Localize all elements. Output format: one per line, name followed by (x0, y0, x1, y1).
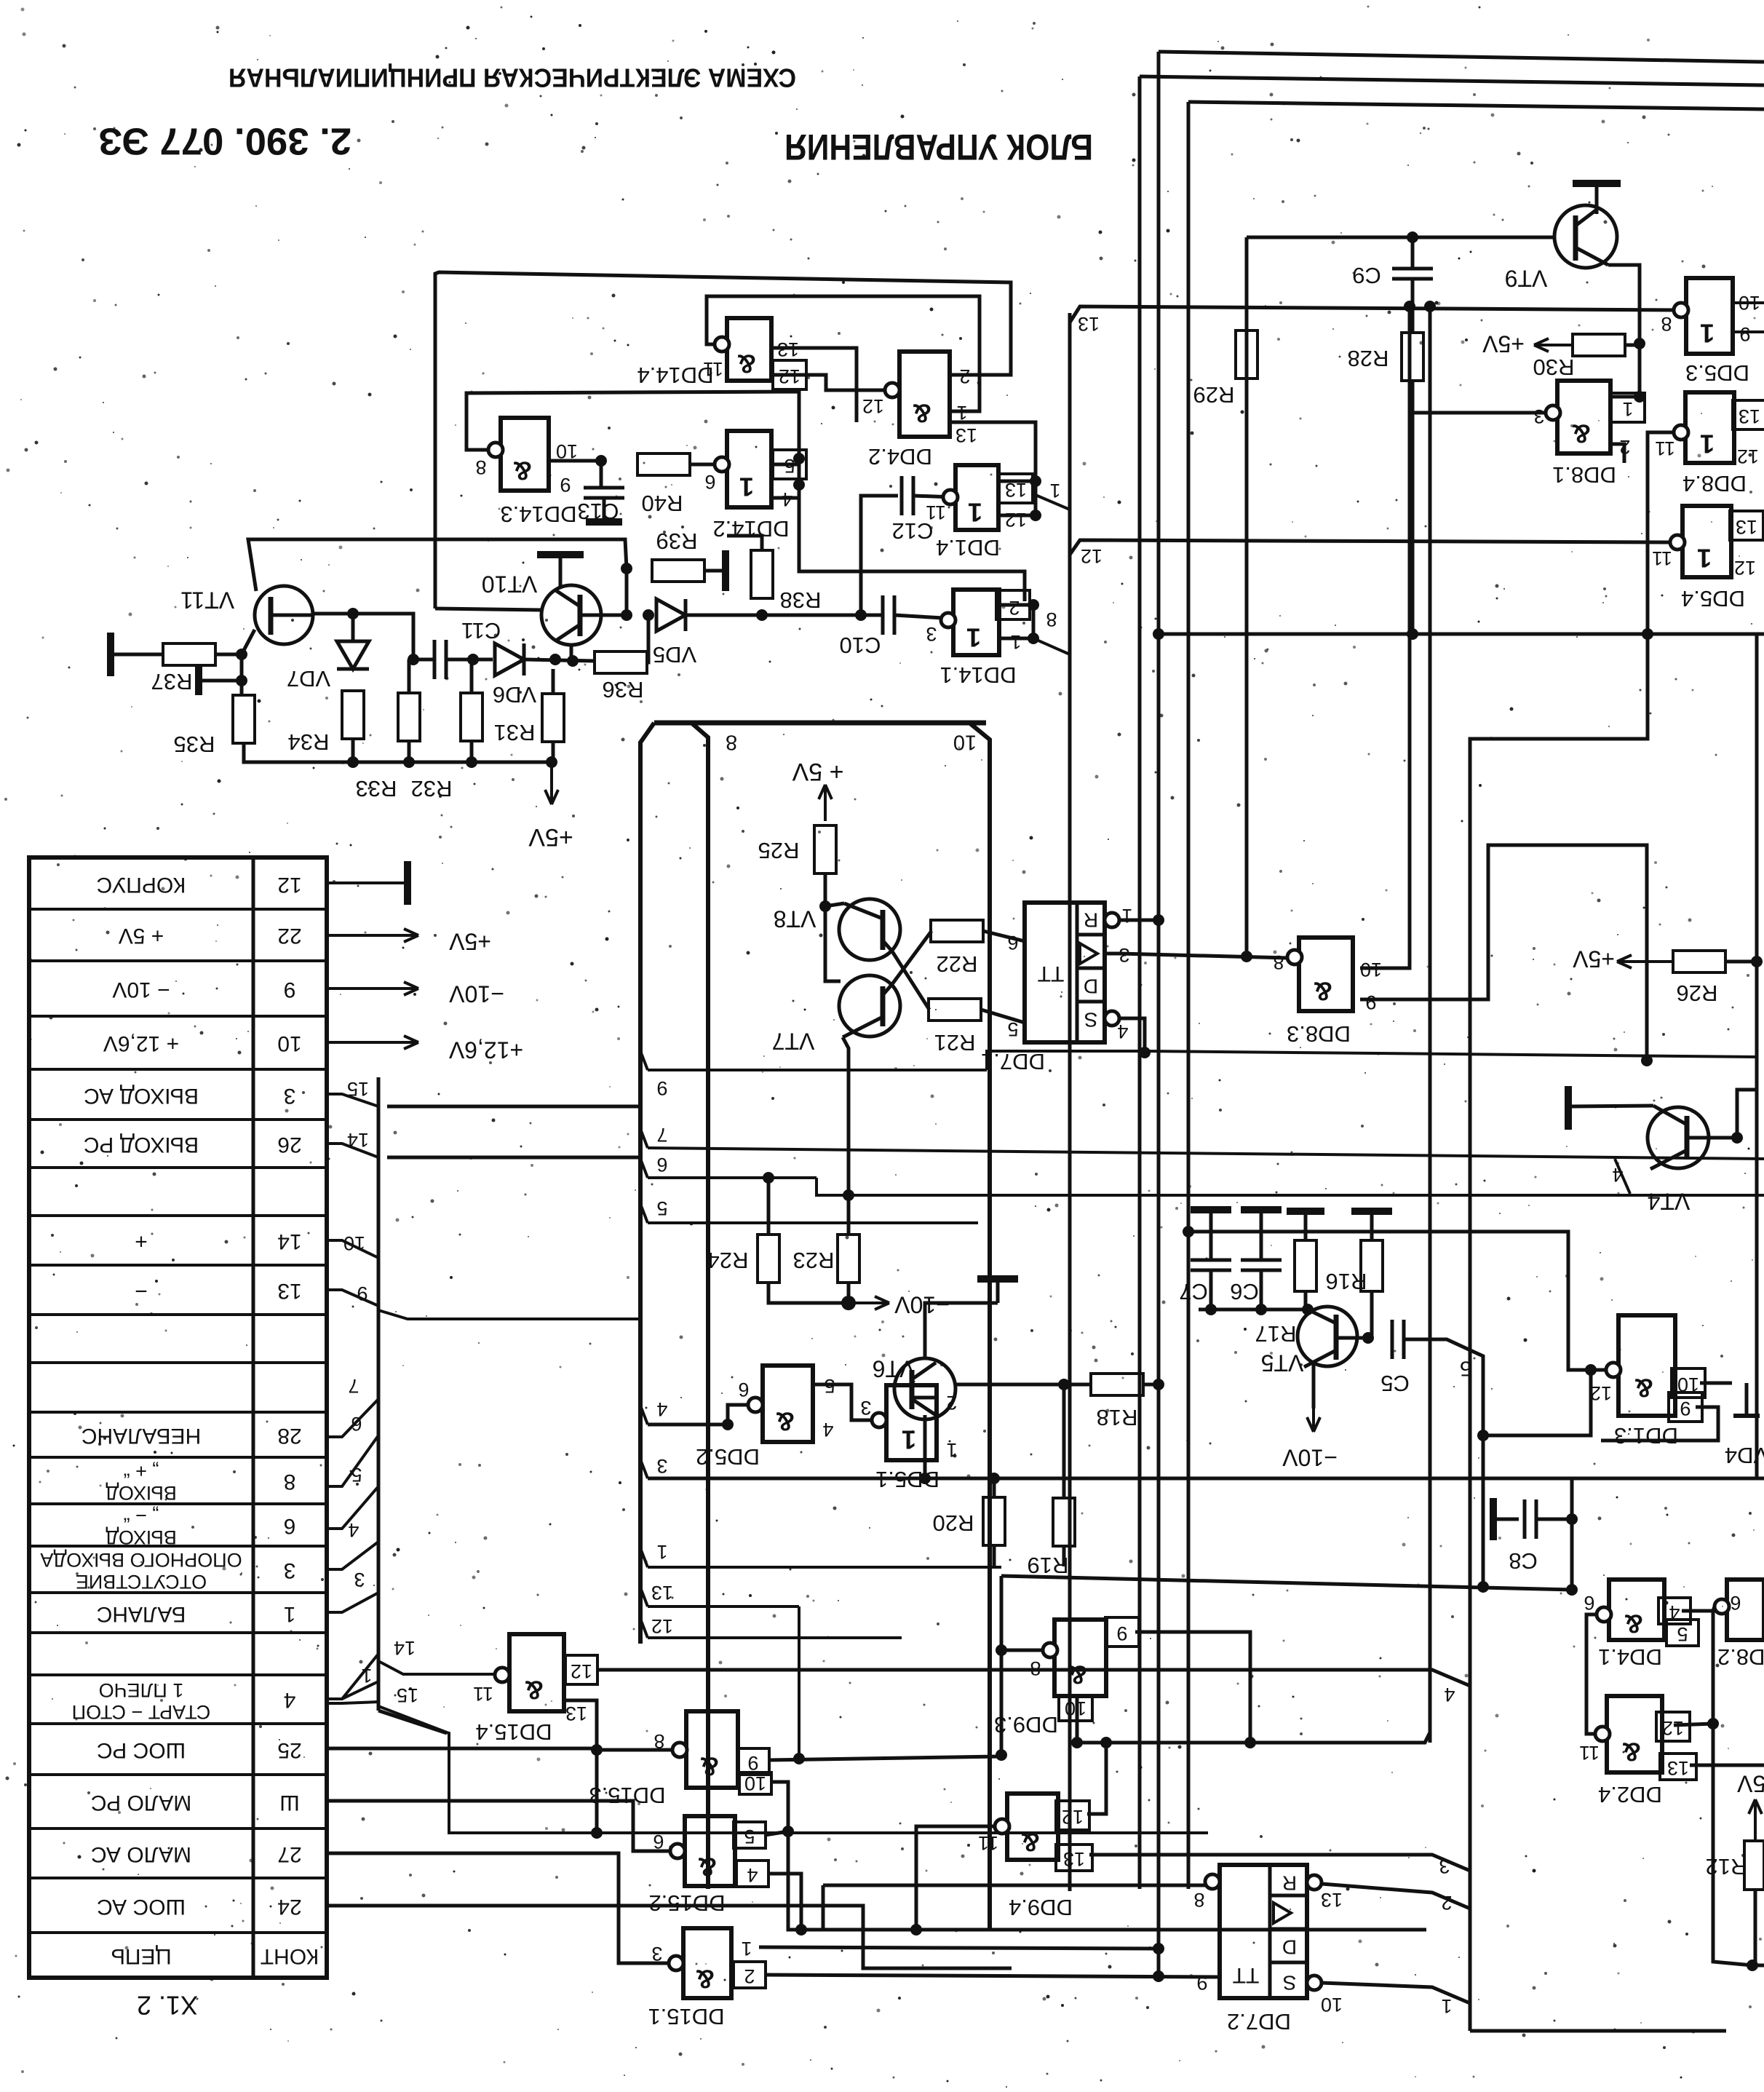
svg-text:ЦЕПЬ: ЦЕПЬ (111, 1944, 171, 1968)
wire cross couple 2 (892, 931, 931, 984)
ground C6 (1241, 1206, 1282, 1213)
svg-text:R: R (1282, 1872, 1297, 1895)
svg-text:C11: C11 (461, 618, 501, 643)
svg-text:R29: R29 (1193, 382, 1235, 408)
svg-text:C9: C9 (1352, 263, 1381, 288)
svg-text:+ 12,6V: + 12,6V (103, 1031, 179, 1055)
svg-text:2: 2 (1441, 1892, 1452, 1914)
svg-text:DD8.1: DD8.1 (1552, 462, 1616, 488)
svg-text:1: 1 (739, 472, 754, 502)
svg-text:3: 3 (926, 623, 937, 645)
svg-text:СХЕМА ЭЛЕКТРИЧЕСКАЯ ПРИНЦИПИА: СХЕМА ЭЛЕКТРИЧЕСКАЯ ПРИНЦИПИАЛЬНАЯ (229, 63, 796, 92)
node junction (595, 455, 607, 467)
svg-text:R30: R30 (1533, 354, 1575, 380)
wire (647, 615, 648, 662)
svg-text:10: 10 (1360, 959, 1382, 980)
svg-text:14: 14 (347, 1129, 369, 1151)
node junction (1302, 1304, 1314, 1315)
resistor R22 (931, 920, 983, 977)
transistor VT10 (482, 571, 601, 645)
wire (1143, 1383, 1159, 1387)
wire VT9 base net (1247, 236, 1555, 239)
svg-text:5: 5 (1460, 1356, 1471, 1379)
wire (981, 1010, 1025, 1023)
wire (413, 658, 434, 662)
svg-text:&: & (1622, 1737, 1641, 1767)
node 14 (327, 1129, 378, 1157)
wire R20 top (993, 1478, 996, 1497)
ground bar C8 (1490, 1498, 1497, 1540)
transistor VT4 (1648, 1106, 1709, 1215)
svg-text:4: 4 (1612, 1164, 1623, 1186)
svg-text:6: 6 (1584, 1592, 1594, 1614)
wire long feedback via VT10 (435, 609, 541, 610)
power +5V arrow contact 22 (327, 929, 491, 955)
svg-text:„ − “: „ − “ (124, 1505, 159, 1526)
wire VT5 emitter arrow -10V (1282, 1364, 1338, 1471)
svg-text:8: 8 (475, 456, 486, 478)
node junction (1205, 1304, 1217, 1315)
svg-text:DD15.1: DD15.1 (648, 2004, 724, 2029)
svg-text:C10: C10 (840, 633, 881, 658)
svg-text:+5V: +5V (1482, 331, 1524, 357)
svg-text:&: & (698, 1852, 717, 1882)
node junction (1139, 1047, 1151, 1058)
svg-text:VD4: VD4 (1725, 1443, 1764, 1468)
ground bar VT4 (1565, 1086, 1572, 1130)
gate DD15.2 (648, 1816, 758, 1916)
diode VD6 (493, 643, 536, 708)
svg-text:4: 4 (747, 1864, 758, 1886)
node junction (793, 1753, 805, 1764)
svg-text:1: 1 (1697, 543, 1712, 573)
svg-text:VT5: VT5 (1261, 1350, 1304, 1376)
svg-text:1: 1 (968, 497, 982, 527)
svg-text:+5V: +5V (448, 929, 490, 955)
svg-text:1: 1 (284, 1602, 296, 1626)
power −10V arrow (849, 1292, 950, 1318)
svg-text:DD14.3: DD14.3 (500, 502, 576, 527)
power +5V arrow R30 (1534, 338, 1573, 352)
svg-text:СТАРТ − СТОП: СТАРТ − СТОП (72, 1701, 211, 1723)
capacitor C10 (840, 595, 894, 658)
svg-text:DD5.3: DD5.3 (1685, 360, 1749, 386)
svg-text:+5V: +5V (1572, 946, 1614, 972)
svg-text:13: 13 (565, 1703, 587, 1724)
node junction (1407, 231, 1418, 243)
svg-text:R36: R36 (603, 677, 644, 702)
wire (549, 459, 601, 463)
svg-text:DD5.2: DD5.2 (696, 1444, 760, 1470)
wire DD9.3 pin10 drop (1076, 1696, 1079, 1743)
wire (771, 496, 799, 500)
wire R19 bottom (1062, 1546, 1066, 1566)
resistor R20 (933, 1497, 1005, 1545)
svg-text:9: 9 (1739, 323, 1750, 345)
node 12 (640, 1615, 902, 1638)
resistor R23 (793, 1235, 859, 1283)
resistor R35 (174, 695, 255, 757)
wire R20 bottom (993, 1545, 996, 1566)
svg-text:DD2.4: DD2.4 (1598, 1782, 1662, 1807)
wire DD14.4 pin13 (771, 348, 857, 408)
svg-text:12: 12 (1590, 1382, 1612, 1404)
svg-text:− 10V: − 10V (112, 978, 170, 1002)
node junction (996, 1644, 1007, 1656)
wire DD1.3 pin10 (1700, 1382, 1732, 1385)
flip-flop DD7.2 (1193, 1865, 1343, 2034)
svg-text:VT10: VT10 (482, 571, 537, 598)
svg-text:R40: R40 (642, 491, 683, 516)
node junction (1404, 301, 1415, 312)
svg-text:1: 1 (946, 1439, 957, 1461)
svg-text:TT: TT (1233, 1963, 1260, 1987)
svg-text:1: 1 (1049, 480, 1060, 502)
svg-text:6: 6 (284, 1514, 296, 1538)
wire (470, 741, 474, 762)
wire horizontal mid bus (1159, 633, 1764, 636)
wire (955, 1383, 1091, 1387)
svg-text:4: 4 (656, 1398, 667, 1420)
node junction (1153, 914, 1164, 926)
resistor R34 (288, 691, 364, 755)
svg-text:МАЛО РС: МАЛО РС (91, 1791, 191, 1815)
svg-text:R25: R25 (758, 838, 800, 863)
svg-text:R35: R35 (174, 732, 215, 757)
svg-text:ВЫХОД АС: ВЫХОД АС (84, 1084, 199, 1108)
transistor VT8 (774, 899, 900, 960)
pin frames (734, 303, 1764, 1988)
gate DD4.2 (862, 352, 977, 469)
wire DD8.1 pin2 loop (1610, 444, 1624, 463)
wire DD8.3 pin10 drop (1360, 306, 1410, 968)
ground above VT9 (1573, 183, 1621, 214)
svg-text:1: 1 (956, 402, 967, 424)
node junction (347, 756, 359, 768)
wire DD8.4 pin11 (1648, 432, 1674, 437)
wire VT9 emitter (1608, 265, 1640, 397)
svg-text:S: S (1084, 1009, 1098, 1031)
wire VT10 emitter (570, 645, 573, 661)
svg-text:2. 390. 077 ЭЗ: 2. 390. 077 ЭЗ (98, 119, 351, 162)
node junction (1585, 1364, 1597, 1376)
node 10 (953, 730, 977, 753)
flip-flop DD7.1 (981, 903, 1132, 1074)
svg-text:&: & (1634, 1373, 1653, 1403)
node 15 (327, 1078, 378, 1106)
svg-text:&: & (696, 1964, 715, 1994)
svg-text:9: 9 (1196, 1972, 1207, 1994)
resistor R39 (652, 528, 704, 582)
svg-text:6: 6 (738, 1379, 749, 1400)
wire DD14.4 pin12 to DD4.2 out (771, 375, 885, 390)
svg-text:1: 1 (1010, 631, 1021, 653)
wire H16 (654, 721, 986, 726)
svg-text:8: 8 (726, 730, 737, 753)
node junction (793, 479, 805, 491)
svg-text:10: 10 (277, 1031, 301, 1055)
node junction (988, 1473, 1000, 1484)
node junction (1641, 1055, 1653, 1066)
wire DD15.3 pin10 (770, 1782, 788, 1831)
node junction (1183, 1226, 1194, 1237)
svg-text:DD9.4: DD9.4 (1009, 1895, 1073, 1920)
node junction (1731, 1132, 1743, 1144)
node junction (621, 563, 632, 574)
svg-text:2: 2 (946, 1392, 957, 1414)
wire (771, 463, 799, 467)
cable line D left (691, 723, 708, 1889)
svg-text:6: 6 (351, 1413, 362, 1435)
svg-text:−10V: −10V (894, 1292, 950, 1318)
wire VT4 base (1568, 1106, 1653, 1106)
svg-text:VT8: VT8 (774, 906, 817, 932)
svg-text:&: & (1021, 1827, 1040, 1857)
node junction (1153, 1379, 1164, 1390)
svg-text:&: & (1572, 419, 1591, 448)
svg-text:24: 24 (277, 1895, 301, 1919)
wire y2394 (1077, 1732, 1430, 1743)
wire DD15.2 pin5 net down (788, 1831, 1426, 1930)
node junction (841, 1296, 856, 1310)
wire (824, 873, 827, 906)
gate DD15.3 (589, 1711, 766, 1808)
svg-text:6: 6 (704, 471, 715, 493)
node 3 (327, 1569, 378, 1612)
node junction (1244, 1737, 1256, 1748)
wire VT5 collector link (1336, 1336, 1368, 1340)
node junction (1642, 628, 1653, 640)
svg-text:−: − (135, 1279, 148, 1303)
svg-text:&: & (525, 1675, 544, 1705)
wire (552, 669, 555, 694)
wire long y2030 (648, 1477, 1764, 1481)
gate DD9.3 (994, 1620, 1127, 1738)
svg-text:DD15.3: DD15.3 (589, 1783, 665, 1808)
resistor R36 (595, 651, 647, 702)
resistor R21 (929, 999, 981, 1055)
svg-text:+ 5V: + 5V (119, 924, 164, 948)
node junction (1058, 1379, 1070, 1390)
svg-text:11: 11 (978, 1832, 998, 1854)
svg-text:DD1.3: DD1.3 (1614, 1423, 1678, 1449)
node junction (1566, 1584, 1578, 1596)
wire (408, 659, 411, 693)
svg-text:+5V: +5V (1736, 1771, 1764, 1797)
svg-text:12: 12 (1737, 445, 1759, 467)
wire DD15.1 pin1 long (759, 1947, 1159, 1949)
svg-text:1 ПЛЕЧО: 1 ПЛЕЧО (99, 1679, 184, 1701)
resistor R18 (1091, 1374, 1143, 1430)
svg-text:R18: R18 (1097, 1405, 1138, 1430)
wire VT4 collector loop (1737, 1090, 1757, 1138)
svg-text:5: 5 (351, 1464, 362, 1486)
svg-text:DD4.2: DD4.2 (868, 444, 932, 469)
svg-text:ШОС РС: ШОС РС (97, 1738, 186, 1762)
svg-text:27: 27 (277, 1842, 301, 1866)
svg-text:7: 7 (348, 1375, 359, 1397)
svg-text:13: 13 (277, 1279, 301, 1303)
node junction (843, 1189, 854, 1201)
wire table to bundleB link 1 (387, 1105, 640, 1109)
node junction (996, 1749, 1007, 1761)
power +5V arrow R12 (1736, 1771, 1764, 1841)
wire DD14.1 pin2 (999, 603, 1033, 607)
svg-text:БАЛАНС: БАЛАНС (97, 1602, 186, 1626)
svg-text:8: 8 (1273, 951, 1284, 973)
transistor VT11 (180, 586, 313, 654)
wire to DD9.4 pin12 (1087, 1743, 1106, 1814)
wire cable line E (1429, 306, 1432, 1743)
wire (822, 1885, 825, 1930)
node junction (1477, 1581, 1489, 1593)
wire DD15.2 pin5 (765, 1831, 788, 1835)
node 4 (640, 1398, 728, 1425)
node junction (910, 1924, 922, 1936)
wire DD7.2 pin10 to cable (1322, 1983, 1470, 2017)
node junction (1153, 628, 1164, 640)
capacitor C11 (434, 618, 501, 679)
wire DD15.3 pin9 long (768, 1756, 1000, 1760)
svg-text:1: 1 (361, 1665, 372, 1687)
svg-text:4: 4 (822, 1419, 833, 1441)
wire VT8-VT7 link (825, 906, 841, 981)
wire top bus 1 (1159, 52, 1764, 62)
svg-text:10: 10 (1321, 1994, 1343, 2016)
svg-text:9: 9 (656, 1077, 667, 1099)
svg-text:15: 15 (397, 1684, 418, 1706)
gate DD5.2 (696, 1366, 835, 1470)
svg-text:3: 3 (1533, 405, 1544, 427)
wire MALO RS net (327, 1801, 670, 1851)
svg-text:13: 13 (1321, 1889, 1343, 1911)
wire top bus 2 (1140, 76, 1764, 85)
wire (625, 568, 629, 615)
wire DD8.3 out (1119, 954, 1287, 958)
wire DD4.2 pin13 to DD1.4 (950, 422, 1036, 481)
gate DD5.4 (1652, 506, 1757, 611)
svg-text:13: 13 (955, 424, 977, 446)
svg-text:14: 14 (394, 1637, 416, 1659)
title line 2 (98, 119, 1093, 167)
resistor R37 (151, 643, 215, 694)
svg-text:9: 9 (1365, 991, 1376, 1013)
wire (215, 653, 242, 657)
wire chamfer5 line (1404, 1339, 1483, 1588)
svg-text:15: 15 (347, 1078, 369, 1100)
wire x2354 vertical (1713, 1611, 1752, 1965)
svg-text:DD5.4: DD5.4 (1681, 586, 1745, 611)
svg-text:+ 5V: + 5V (792, 758, 843, 785)
wire (998, 480, 1036, 483)
node junction (236, 649, 247, 660)
svg-text:11: 11 (1579, 1742, 1600, 1764)
svg-text:12: 12 (1734, 557, 1756, 579)
capacitor C13 (584, 488, 624, 498)
svg-text:11: 11 (1655, 437, 1675, 459)
wire MALO AS net (327, 1853, 669, 1963)
svg-text:X1. 2: X1. 2 (137, 1990, 198, 2020)
resistor R29 (1193, 330, 1258, 408)
svg-text:R39: R39 (656, 528, 698, 554)
wire DD5.3 pin8 net (1070, 306, 1684, 322)
power +5V arrow R25 (792, 758, 843, 821)
node junction (1071, 1737, 1083, 1748)
capacitor C5 (1380, 1320, 1410, 1396)
gate DD14.3 (475, 418, 578, 527)
svg-text:3: 3 (651, 1943, 662, 1965)
svg-text:МАЛО АС: МАЛО АС (91, 1842, 191, 1866)
svg-text:+: + (135, 1229, 148, 1253)
svg-text:10: 10 (556, 440, 578, 462)
node junction (1100, 1737, 1112, 1748)
svg-text:1: 1 (1441, 1995, 1452, 2017)
svg-text:DD4.1: DD4.1 (1598, 1644, 1662, 1670)
svg-text:DD8.4: DD8.4 (1682, 471, 1747, 496)
svg-text:3: 3 (656, 1455, 667, 1477)
wire (913, 496, 953, 497)
wire DD15.2 pin4 stub (768, 1874, 801, 1930)
node junction (591, 1827, 603, 1839)
svg-text:VT7: VT7 (772, 1029, 815, 1055)
capacitor C6 (1241, 1260, 1282, 1270)
svg-text:ШОС АС: ШОС АС (97, 1895, 186, 1919)
svg-text:11: 11 (1652, 547, 1672, 569)
node junction (1028, 599, 1039, 611)
wire R19 top (1062, 1384, 1066, 1498)
wire 12 net to DD5.4 (1070, 540, 1675, 555)
node junction (347, 608, 359, 619)
gate DD5.3 (1661, 278, 1760, 386)
node 4 (327, 1519, 378, 1569)
svg-text:10: 10 (953, 730, 977, 753)
connector table X1.2 (29, 857, 327, 2020)
svg-text:6: 6 (1730, 1592, 1741, 1614)
node junction (591, 1744, 603, 1756)
svg-text:C8: C8 (1509, 1548, 1538, 1574)
svg-text:5: 5 (1007, 1018, 1018, 1040)
svg-text:R: R (1084, 909, 1098, 932)
wire bottom right edge (1752, 1964, 1764, 1968)
svg-text:13: 13 (651, 1582, 673, 1604)
ground at R37 (107, 633, 114, 676)
wire (408, 741, 411, 762)
node junction (1634, 338, 1645, 349)
svg-text:2: 2 (959, 365, 970, 387)
ground stub (199, 666, 242, 695)
node junction (1255, 1304, 1267, 1315)
wire R23 top (847, 1195, 851, 1235)
wire DD14.2 pin4 run (799, 485, 1025, 601)
wire VT10 base (580, 614, 627, 617)
wire cross couple 1 (892, 951, 929, 1010)
svg-text:DD7.2: DD7.2 (1227, 2009, 1291, 2034)
svg-text:КОРПУС: КОРПУС (97, 873, 186, 897)
svg-text:ВЫХОД РС: ВЫХОД РС (84, 1133, 199, 1157)
svg-text:4: 4 (284, 1688, 296, 1712)
resistor R33 (398, 693, 420, 741)
svg-text:R24: R24 (707, 1248, 749, 1273)
node 8 (726, 730, 737, 753)
wire (983, 931, 1025, 941)
svg-text:R26: R26 (1677, 980, 1718, 1006)
transistor VT6 (873, 1356, 955, 1419)
wire DD5.2 pin5 to DD5.1 (813, 1384, 872, 1420)
wire (1034, 481, 1038, 515)
wire VT6 emitter (923, 1415, 927, 1478)
wire DD2.4 pin13 long (1690, 1764, 1764, 1767)
wire DD4.1 out loop (1586, 1614, 1597, 1734)
